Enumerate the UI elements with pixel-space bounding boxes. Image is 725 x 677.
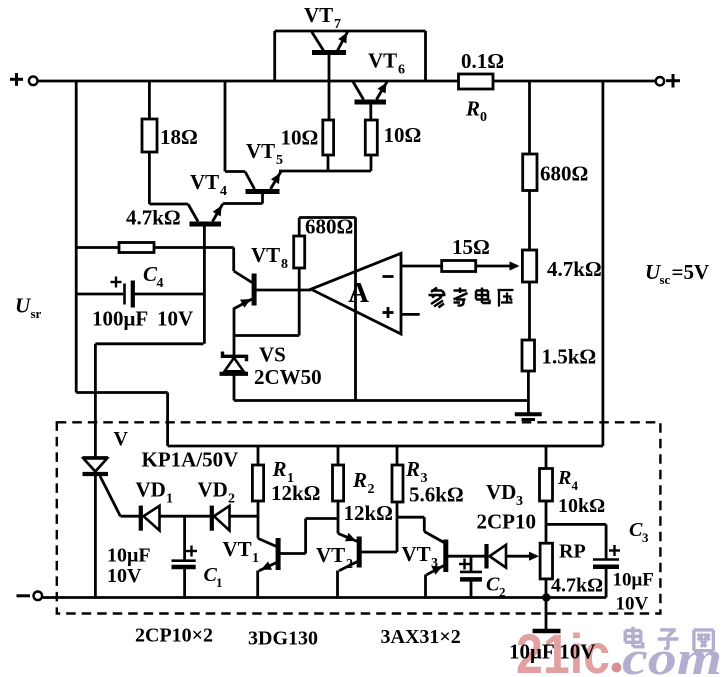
svg-text:R: R — [272, 457, 287, 481]
svg-text:2: 2 — [346, 557, 353, 572]
svg-text:10μF: 10μF — [613, 570, 654, 591]
svg-text:VT: VT — [402, 542, 431, 566]
svg-text:VT: VT — [304, 3, 333, 27]
svg-text:3: 3 — [516, 494, 523, 509]
svg-text:RP: RP — [559, 541, 586, 563]
svg-text:VT: VT — [251, 243, 280, 267]
svg-text:U: U — [15, 294, 32, 318]
svg-text:KP1A/50V: KP1A/50V — [142, 448, 239, 472]
svg-text:C: C — [486, 574, 500, 596]
svg-text:3: 3 — [642, 530, 649, 545]
svg-text:12kΩ: 12kΩ — [271, 481, 321, 505]
svg-text:1: 1 — [252, 551, 259, 566]
svg-text:VT: VT — [246, 139, 275, 163]
svg-text:2CW50: 2CW50 — [254, 365, 322, 389]
svg-text:10V: 10V — [107, 565, 142, 587]
svg-text:VD: VD — [136, 478, 166, 502]
svg-text:VT: VT — [223, 537, 252, 561]
svg-text:10μF 10V: 10μF 10V — [509, 640, 595, 664]
svg-text:3: 3 — [431, 556, 438, 571]
svg-text:4: 4 — [220, 184, 227, 199]
svg-text:R: R — [557, 467, 571, 489]
svg-text:15Ω: 15Ω — [452, 235, 490, 259]
svg-text:1: 1 — [166, 492, 173, 507]
svg-text:10V: 10V — [616, 594, 649, 615]
svg-text:R: R — [465, 97, 480, 121]
svg-text:0.1Ω: 0.1Ω — [461, 49, 504, 73]
svg-text:2CP10: 2CP10 — [477, 510, 537, 534]
svg-text:1: 1 — [216, 575, 223, 590]
svg-text:C: C — [629, 519, 643, 541]
svg-text:VD: VD — [198, 478, 228, 502]
svg-text:5.6kΩ: 5.6kΩ — [409, 483, 464, 507]
svg-text:VT: VT — [190, 170, 219, 194]
svg-text:VD: VD — [486, 480, 516, 504]
svg-text:4.7kΩ: 4.7kΩ — [551, 575, 603, 597]
svg-text:10kΩ: 10kΩ — [558, 495, 605, 517]
svg-text:2: 2 — [368, 482, 375, 497]
svg-text:R: R — [352, 468, 367, 492]
svg-text:2: 2 — [499, 585, 506, 600]
svg-text:680Ω: 680Ω — [540, 162, 588, 186]
svg-text:VT: VT — [368, 49, 397, 73]
svg-text:4: 4 — [157, 276, 164, 291]
svg-text:680Ω: 680Ω — [305, 215, 353, 239]
svg-text:3AX31×2: 3AX31×2 — [381, 626, 461, 648]
svg-text:6: 6 — [398, 63, 405, 78]
svg-text:3DG130: 3DG130 — [248, 628, 318, 650]
svg-text:8: 8 — [281, 257, 288, 272]
svg-text:4: 4 — [572, 478, 579, 493]
svg-text:VT: VT — [316, 543, 345, 567]
svg-text:0: 0 — [480, 110, 487, 125]
svg-text:18Ω: 18Ω — [160, 125, 198, 149]
svg-text:V: V — [114, 428, 129, 450]
svg-text:4.7kΩ: 4.7kΩ — [547, 257, 602, 281]
svg-text:sr: sr — [31, 306, 42, 321]
svg-text:sc: sc — [660, 272, 671, 287]
svg-text:R: R — [405, 457, 420, 481]
svg-text:10Ω: 10Ω — [281, 126, 319, 150]
svg-text:2CP10×2: 2CP10×2 — [135, 625, 213, 647]
svg-text:10μF: 10μF — [107, 545, 151, 567]
svg-text:7: 7 — [334, 17, 341, 32]
svg-text:=5V: =5V — [672, 260, 710, 284]
svg-text:2: 2 — [228, 492, 235, 507]
svg-text:10Ω: 10Ω — [384, 123, 422, 147]
svg-text:VS: VS — [259, 343, 286, 367]
svg-text:4.7kΩ: 4.7kΩ — [126, 206, 181, 230]
svg-text:12kΩ: 12kΩ — [344, 501, 394, 525]
svg-text:100μF: 100μF — [92, 307, 148, 331]
svg-text:A: A — [348, 277, 369, 309]
svg-text:1.5kΩ: 1.5kΩ — [542, 345, 597, 369]
svg-text:10V: 10V — [157, 307, 193, 331]
svg-text:5: 5 — [276, 153, 283, 168]
